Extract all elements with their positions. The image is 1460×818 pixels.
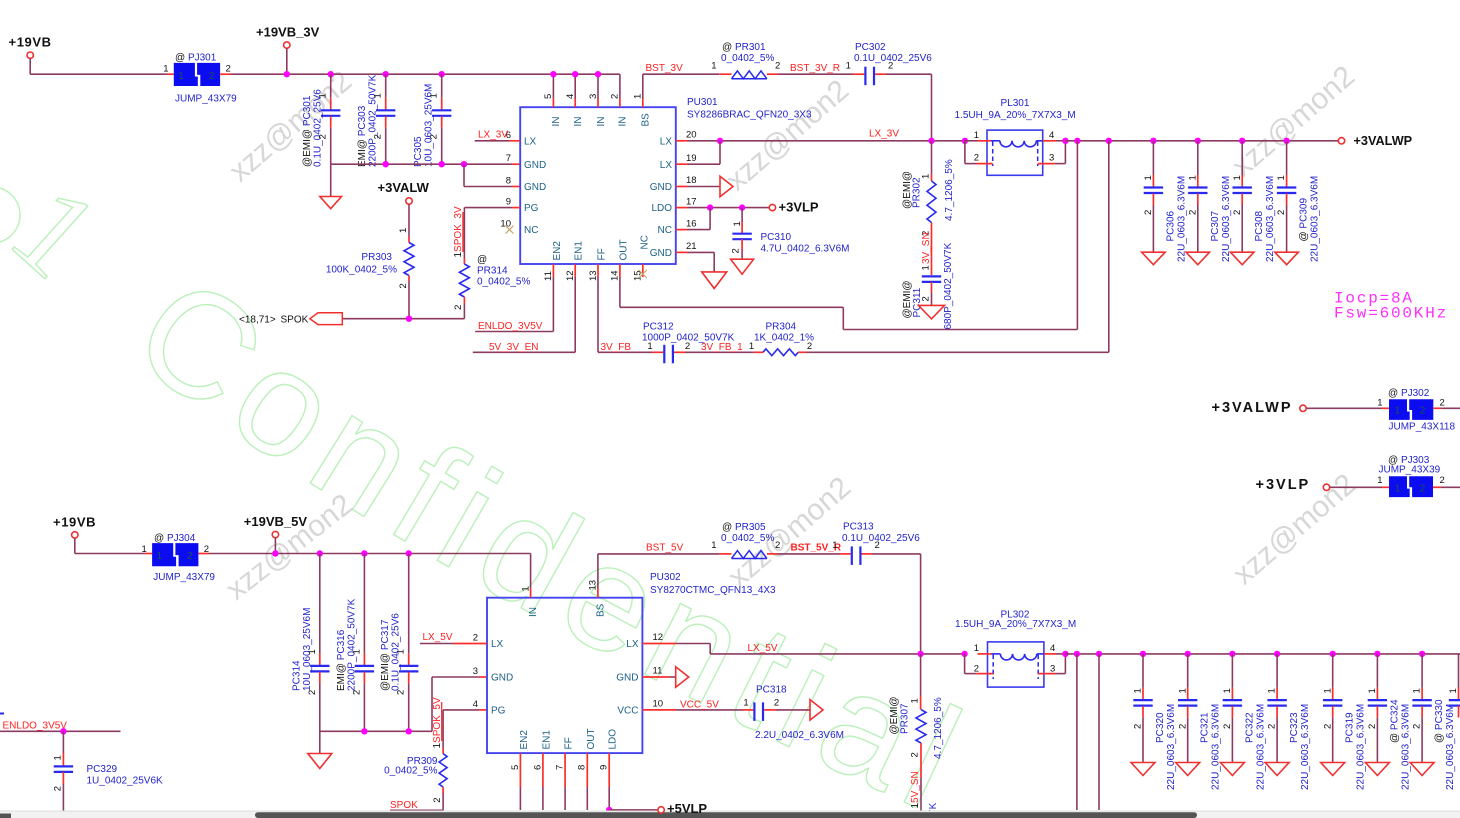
svg-text:ENLDO_3V5V: ENLDO_3V5V xyxy=(3,721,68,732)
wire LX_3V rail xyxy=(688,138,969,144)
capacitor PC328 partial label xyxy=(928,802,939,818)
svg-text:2: 2 xyxy=(774,698,779,709)
watermark xzz@mon2 6 xyxy=(1227,468,1362,592)
svg-text:2: 2 xyxy=(974,153,979,164)
svg-text:PC329: PC329 xyxy=(87,764,118,775)
gnd arrow pin18 xyxy=(688,176,734,197)
svg-text:SPOK: SPOK xyxy=(390,800,418,811)
svg-text:LX_3V: LX_3V xyxy=(869,129,899,140)
svg-text:NC: NC xyxy=(640,235,651,249)
resistor PR304 1K_0402_1% xyxy=(749,321,814,355)
svg-text:PC306: PC306 xyxy=(1165,210,1176,241)
svg-text:EMI@ PC316: EMI@ PC316 xyxy=(336,629,347,691)
capacitor partial right edge xyxy=(1448,654,1460,718)
svg-text:+3VALWP: +3VALWP xyxy=(1354,134,1413,148)
svg-text:PL301: PL301 xyxy=(1001,98,1030,109)
svg-text:1: 1 xyxy=(1222,688,1233,693)
svg-text:10: 10 xyxy=(500,219,511,230)
svg-text:PC311: PC311 xyxy=(912,287,923,317)
PU302 pin 12 LX (right) xyxy=(626,632,676,650)
PU301 pin 1 BS (top) xyxy=(633,94,652,127)
svg-text:OUT: OUT xyxy=(618,239,629,260)
wire PG pin4 to PR309 xyxy=(443,710,487,748)
svg-text:LX: LX xyxy=(491,639,504,650)
svg-text:12: 12 xyxy=(565,270,576,281)
svg-text:1: 1 xyxy=(429,93,440,98)
power terminal +3VALWP (PJ302) xyxy=(1212,400,1307,416)
svg-text:@ PR301: @ PR301 xyxy=(722,42,766,53)
svg-text:1: 1 xyxy=(396,649,407,654)
svg-text:SY8270CTMC_QFN13_4X3: SY8270CTMC_QFN13_4X3 xyxy=(650,585,776,596)
resistor PR309 0_0402_5% xyxy=(384,748,447,810)
svg-text:PC312: PC312 xyxy=(643,321,674,332)
wire PC313 down to LX_5V rail xyxy=(872,554,921,654)
svg-text:21: 21 xyxy=(686,241,697,252)
net label LX_3V (rail) xyxy=(869,129,899,140)
PU301 pin 3 IN (top) xyxy=(588,71,607,127)
svg-text:FF: FF xyxy=(564,737,575,749)
svg-text:PC323: PC323 xyxy=(1289,712,1300,743)
wire SPOK rail xyxy=(342,316,464,322)
scrollbar thumb xyxy=(0,812,1197,818)
power terminal +3VLP (pin17) xyxy=(769,200,819,215)
PU301 pin 12 EN1 (bottom) xyxy=(565,241,585,281)
capacitor PC317 0.1U_0402_25V6 xyxy=(380,550,418,731)
ground below PC314 xyxy=(308,731,332,768)
wire +3VALWP to PJ302 xyxy=(1306,407,1389,409)
svg-text:LX: LX xyxy=(524,136,537,147)
svg-text:3: 3 xyxy=(1050,663,1055,674)
power terminal +19VB (top) xyxy=(9,35,52,59)
capacitor PC322 22U_0603_6.3V6M xyxy=(1220,651,1266,790)
annotation Iocp Fsw xyxy=(1334,290,1448,323)
svg-text:1: 1 xyxy=(1322,688,1333,693)
svg-text:LX_5V: LX_5V xyxy=(423,632,453,643)
power terminal +19VB_3V xyxy=(256,25,320,75)
net label BST_5V xyxy=(598,543,719,554)
wire +19VB to PJ301 xyxy=(30,58,174,74)
svg-text:2: 2 xyxy=(1440,398,1445,409)
svg-text:2: 2 xyxy=(1412,724,1423,729)
svg-text:GND: GND xyxy=(524,182,546,193)
svg-text:LX_5V: LX_5V xyxy=(748,643,778,654)
svg-text:22U_0603_6.3V6M: 22U_0603_6.3V6M xyxy=(1300,704,1311,790)
svg-text:+19VB: +19VB xyxy=(9,35,52,50)
net label LX_3V (left) xyxy=(475,129,509,141)
svg-text:PC305: PC305 xyxy=(413,136,424,167)
svg-text:JUMP_43X79: JUMP_43X79 xyxy=(153,572,215,583)
PU301 pin 20 LX (right) xyxy=(660,130,697,148)
svg-text:EN2: EN2 xyxy=(519,730,530,750)
svg-text:4.7U_0402_6.3V6M: 4.7U_0402_6.3V6M xyxy=(761,244,850,255)
PU302 pin 5 EN2 (bottom) xyxy=(510,730,530,787)
svg-text:LDO: LDO xyxy=(651,203,672,214)
svg-text:1: 1 xyxy=(142,544,147,555)
net 3V_SN stub xyxy=(921,230,932,276)
svg-text:0.1U_0402_25V6: 0.1U_0402_25V6 xyxy=(854,53,932,64)
off-page connector SPOK xyxy=(239,313,342,326)
PU301 pin 14 OUT (bottom) xyxy=(610,239,630,281)
svg-text:JUMP_43X118: JUMP_43X118 xyxy=(1389,422,1456,433)
svg-text:1: 1 xyxy=(633,94,644,99)
svg-text:PC322: PC322 xyxy=(1244,712,1255,743)
PU302 pin 1 IN (top) xyxy=(520,554,539,618)
capacitor PC329 1U_0402_25V6K xyxy=(52,731,163,815)
capacitor PC310 4.7U_0402_6.3V6M xyxy=(731,208,850,260)
net label LX_5V (left) xyxy=(420,632,454,644)
svg-text:1: 1 xyxy=(1395,406,1401,417)
svg-text:15: 15 xyxy=(633,270,644,281)
svg-text:2: 2 xyxy=(398,283,409,288)
inductor PL302 1.5UH_9A_20%_7X7X3_M xyxy=(955,609,1076,687)
svg-text:2: 2 xyxy=(396,690,407,695)
svg-text:22U_0603_6.3V6M: 22U_0603_6.3V6M xyxy=(1176,176,1187,262)
junction ENLDO PC329 xyxy=(60,728,66,734)
svg-text:BS: BS xyxy=(596,603,607,617)
wire PJ304 to +19VB_5V rail xyxy=(198,553,530,555)
svg-text:@EMI@: @EMI@ xyxy=(889,696,900,734)
svg-text:2: 2 xyxy=(1232,210,1243,215)
svg-text:1: 1 xyxy=(52,755,63,760)
junction gnd bus pin8 branch xyxy=(461,161,520,187)
svg-text:PR302: PR302 xyxy=(912,177,923,208)
svg-text:GND: GND xyxy=(524,160,546,171)
svg-text:1: 1 xyxy=(1267,688,1278,693)
svg-text:+3VALW: +3VALW xyxy=(378,180,430,195)
PU301 pin 15 NC (bottom) xyxy=(633,235,651,281)
wire LX_5V rail (pin12) xyxy=(676,644,968,658)
wire 3V_FB_1 feedback to rail xyxy=(807,141,1109,352)
svg-text:@ PJ301: @ PJ301 xyxy=(175,53,217,64)
wire 3V_FB from pin13 xyxy=(598,277,652,352)
svg-text:4: 4 xyxy=(565,94,576,99)
svg-text:3V_SN: 3V_SN xyxy=(921,232,932,264)
svg-text:+19VB_3V: +19VB_3V xyxy=(256,25,320,40)
svg-text:2200P_0402_50V7K: 2200P_0402_50V7K xyxy=(368,74,379,167)
svg-text:4.7_1206_5%: 4.7_1206_5% xyxy=(933,697,944,759)
PU301 pin 4 IN (top) xyxy=(565,71,584,127)
net label BST_3V_R xyxy=(778,63,854,74)
PU301 pin 8 GND (left) xyxy=(506,176,547,194)
op-amp U2 PU302 SY8270CTMC_QFN13_4X3 body xyxy=(487,572,776,753)
svg-text:BST_5V: BST_5V xyxy=(646,543,684,554)
PU302 pin 2 LX (left) xyxy=(454,633,504,651)
svg-text:1: 1 xyxy=(307,649,318,654)
svg-text:100K_0402_5%: 100K_0402_5% xyxy=(326,264,397,275)
net label LX_5V (rail) xyxy=(748,643,778,654)
svg-text:LDO: LDO xyxy=(608,729,619,750)
svg-text:PC313: PC313 xyxy=(843,522,874,533)
svg-text:2: 2 xyxy=(1420,484,1426,495)
svg-text:2: 2 xyxy=(974,663,979,674)
gnd bus wire bottom xyxy=(320,728,432,734)
svg-text:14: 14 xyxy=(610,270,621,281)
svg-text:0_0402_5%: 0_0402_5% xyxy=(721,53,774,64)
net label 1SPOK_5V xyxy=(432,697,443,748)
svg-text:11: 11 xyxy=(543,271,554,281)
watermark xzz@mon2 7 xyxy=(722,471,857,595)
svg-text:IN: IN xyxy=(551,117,562,127)
capacitor PC313 0.1U_0402_25V6 xyxy=(832,522,920,565)
svg-text:PR314: PR314 xyxy=(477,266,508,277)
svg-text:LX: LX xyxy=(626,639,639,650)
scrollbar track xyxy=(0,811,1460,818)
svg-text:2: 2 xyxy=(226,64,231,75)
svg-text:22U_0603_6.3V6M: 22U_0603_6.3V6M xyxy=(1211,704,1222,790)
PU301 pin 13 FF (bottom) xyxy=(588,248,608,281)
svg-text:@ PJ304: @ PJ304 xyxy=(154,533,196,544)
svg-text:SPOK: SPOK xyxy=(281,315,309,326)
svg-text:4: 4 xyxy=(1050,643,1055,654)
capacitor PC312 1000P_0402_50V7K xyxy=(642,321,735,363)
wire LDO pin17 to +3VLP xyxy=(688,204,770,210)
svg-text:1: 1 xyxy=(1377,398,1382,409)
net label 1SPOK_3V xyxy=(453,206,464,257)
svg-text:@ PR305: @ PR305 xyxy=(722,522,766,533)
svg-text:22U_0603_6.3V6M: 22U_0603_6.3V6M xyxy=(1310,176,1321,262)
svg-text:16: 16 xyxy=(686,218,697,229)
svg-text:5: 5 xyxy=(510,765,521,770)
svg-text:LX: LX xyxy=(660,160,673,171)
junction +19VB_5V xyxy=(272,550,278,556)
svg-text:@EMI@ PC301: @EMI@ PC301 xyxy=(302,95,313,167)
svg-text:8: 8 xyxy=(577,765,588,770)
svg-text:1: 1 xyxy=(1395,484,1401,495)
svg-text:2: 2 xyxy=(209,71,215,82)
svg-text:5V_3V_EN: 5V_3V_EN xyxy=(489,342,538,353)
PU301 pin 21 GND (right) xyxy=(650,241,697,259)
svg-text:GND: GND xyxy=(616,673,638,684)
junction PL302 out xyxy=(1062,651,1068,657)
svg-text:@ PC330: @ PC330 xyxy=(1434,699,1445,743)
wire +19VB to PJ304 xyxy=(75,538,152,553)
svg-text:2: 2 xyxy=(1187,210,1198,215)
wire +3VALWP rail xyxy=(1065,138,1338,144)
svg-text:2: 2 xyxy=(1177,724,1188,729)
svg-text:1: 1 xyxy=(1377,475,1382,486)
gnd bus wire to PU301 pin7 xyxy=(331,161,521,167)
svg-text:0_0402_5%: 0_0402_5% xyxy=(384,765,437,776)
svg-text:1: 1 xyxy=(351,649,362,654)
svg-text:1: 1 xyxy=(1133,688,1144,693)
svg-text:2: 2 xyxy=(1367,724,1378,729)
svg-text:1: 1 xyxy=(910,698,921,703)
svg-text:2: 2 xyxy=(187,551,193,562)
svg-text:+3VALWP: +3VALWP xyxy=(1212,400,1293,416)
wire NC pin16 tie to LDO xyxy=(688,208,711,230)
ground below PC301 xyxy=(320,164,342,209)
svg-text:2: 2 xyxy=(318,134,329,139)
wire PJ301 to +19VB_3V rail xyxy=(220,73,620,75)
svg-text:22U_0603_6.3V6M: 22U_0603_6.3V6M xyxy=(1265,176,1276,262)
svg-text:1: 1 xyxy=(398,228,409,233)
wire PC302 down to LX_3V rail xyxy=(886,74,932,141)
svg-text:1: 1 xyxy=(520,586,531,591)
svg-text:IN: IN xyxy=(596,117,607,127)
svg-text:17: 17 xyxy=(686,196,697,207)
svg-text:4.7_1206_5%: 4.7_1206_5% xyxy=(944,159,955,221)
svg-text:PC321: PC321 xyxy=(1200,712,1211,743)
svg-text:BST_3V_R: BST_3V_R xyxy=(790,63,840,74)
net label VCC_5V xyxy=(676,699,743,710)
svg-text:2: 2 xyxy=(1322,724,1333,729)
svg-text:8: 8 xyxy=(506,176,511,187)
svg-text:SY8286BRAC_QFN20_3X3: SY8286BRAC_QFN20_3X3 xyxy=(687,110,812,121)
wire PG pin9 to PR314 xyxy=(464,208,512,258)
svg-text:0_0402_5%: 0_0402_5% xyxy=(477,277,530,288)
svg-text:1K_0402_1%: 1K_0402_1% xyxy=(754,333,814,344)
wire EN1 pin6 down xyxy=(542,787,544,810)
wire FF pin7 down xyxy=(564,787,566,810)
svg-text:1: 1 xyxy=(178,71,184,82)
svg-text:1: 1 xyxy=(846,61,851,72)
svg-text:1: 1 xyxy=(974,643,979,654)
wire +5V output rail xyxy=(1065,651,1460,657)
svg-text:@ PC324: @ PC324 xyxy=(1389,699,1400,743)
svg-text:2: 2 xyxy=(373,134,384,139)
PU302 pin 4 PG (left) xyxy=(473,699,506,717)
svg-text:PR307: PR307 xyxy=(900,703,911,734)
svg-text:VCC_5V: VCC_5V xyxy=(680,699,719,710)
svg-text:3: 3 xyxy=(588,94,599,99)
capacitor PC314 10U_0603_25V6M xyxy=(291,550,329,731)
svg-text:ENLDO_3V5V: ENLDO_3V5V xyxy=(478,321,543,332)
svg-text:PG: PG xyxy=(524,203,539,214)
net label BST_3V xyxy=(646,63,684,74)
svg-text:PG: PG xyxy=(491,706,506,717)
svg-text:@: @ xyxy=(477,255,487,266)
capacitor PC319 22U_0603_6.3V6M xyxy=(1321,651,1367,790)
resistor PR307 4.7_1206_5% xyxy=(889,654,944,759)
svg-text:+19VB_5V: +19VB_5V xyxy=(244,514,308,529)
PU302 pin 8 OUT (bottom) xyxy=(577,728,597,787)
wire ENLDO_3V5V from pin11 xyxy=(475,277,553,332)
ground below PC310 xyxy=(731,259,754,274)
PU302 pin 9 LDO (bottom) xyxy=(599,729,619,787)
watermark xzz@mon2 8 xyxy=(220,488,359,607)
svg-text:GND: GND xyxy=(650,182,672,193)
svg-text:PU301: PU301 xyxy=(687,97,718,108)
svg-text:1: 1 xyxy=(1177,688,1188,693)
cut-off component left edge xyxy=(0,713,4,715)
svg-text:JUMP_43X39: JUMP_43X39 xyxy=(1379,465,1441,476)
svg-text:IN: IN xyxy=(528,607,539,617)
PU302 pin 7 FF (bottom) xyxy=(555,737,575,787)
svg-text:2: 2 xyxy=(775,61,780,72)
svg-text:6: 6 xyxy=(532,765,543,770)
svg-text:18: 18 xyxy=(686,175,697,186)
svg-text:+3VLP: +3VLP xyxy=(1256,477,1311,493)
svg-text:2: 2 xyxy=(52,786,63,791)
svg-text:2: 2 xyxy=(1133,724,1144,729)
svg-text:2: 2 xyxy=(909,752,920,757)
wire OUT pin14 feedback xyxy=(620,141,1078,330)
capacitor PC306 22U_0603_6.3V6M xyxy=(1142,138,1188,265)
svg-text:<18,71>: <18,71> xyxy=(239,315,276,326)
svg-text:BST_3V: BST_3V xyxy=(646,63,684,74)
capacitor PC307 22U_0603_6.3V6M xyxy=(1186,138,1232,265)
svg-text:2: 2 xyxy=(610,94,621,99)
svg-text:@ PJ302: @ PJ302 xyxy=(1388,388,1430,399)
svg-text:22U_0603_6.3V6M: 22U_0603_6.3V6M xyxy=(1400,704,1411,790)
svg-text:2: 2 xyxy=(1276,210,1287,215)
svg-text:NC: NC xyxy=(524,225,538,236)
capacitor PC303 2200P_0402_50V7K xyxy=(357,71,395,167)
svg-text:1: 1 xyxy=(163,64,168,75)
svg-text:20: 20 xyxy=(686,130,697,141)
capacitor PC301 0.1U_0402_25V6 xyxy=(302,71,340,167)
svg-text:PC307: PC307 xyxy=(1210,210,1221,241)
wire PJ302 out xyxy=(1433,407,1460,409)
power terminal +5VLP xyxy=(658,801,708,816)
PU302 pin 13 BS (top) xyxy=(588,554,607,617)
wire gnd bus to pin3 xyxy=(432,677,487,731)
svg-text:Fsw=600KHz: Fsw=600KHz xyxy=(1334,305,1448,323)
PU301 pin 11 EN2 (bottom) xyxy=(543,241,563,281)
svg-text:15V_SN: 15V_SN xyxy=(910,771,921,808)
inductor PL301 1.5UH_9A_20%_7X7X3_M xyxy=(955,98,1076,175)
net label BST_5V_R xyxy=(778,543,842,554)
ground below PC311 xyxy=(919,305,945,319)
svg-text:PC310: PC310 xyxy=(761,232,792,243)
svg-text:2: 2 xyxy=(775,540,780,551)
svg-text:19: 19 xyxy=(686,153,697,164)
svg-text:IN: IN xyxy=(618,117,629,127)
svg-text:1: 1 xyxy=(1143,175,1154,180)
svg-text:@EMI@ PC317: @EMI@ PC317 xyxy=(380,619,391,691)
net label SPOK (bottom) xyxy=(390,800,443,811)
svg-text:2200P_0402_50V7K: 2200P_0402_50V7K xyxy=(346,598,357,691)
svg-text:PU302: PU302 xyxy=(650,572,681,583)
svg-text:2.2U_0402_6.3V6M: 2.2U_0402_6.3V6M xyxy=(755,730,844,741)
svg-text:22U_0603_6.3V6M: 22U_0603_6.3V6M xyxy=(1445,704,1456,790)
resistor PR303 100K_0402_5% xyxy=(326,204,414,319)
svg-text:4: 4 xyxy=(1049,130,1054,141)
resistor PR301 0_0402_5% xyxy=(711,42,780,79)
svg-text:1: 1 xyxy=(318,93,329,98)
svg-text:VCC: VCC xyxy=(617,706,638,717)
gnd arrow pin11 xyxy=(670,667,689,688)
junction +19VB_3V xyxy=(284,71,290,77)
wire BS pin1 to BST_3V xyxy=(643,74,719,98)
svg-text:3: 3 xyxy=(1049,153,1054,164)
svg-text:1: 1 xyxy=(1367,688,1378,693)
wire PJ303 out xyxy=(1433,486,1460,488)
PU301 pin 16 NC (right) xyxy=(658,218,697,236)
svg-text:FF: FF xyxy=(597,248,608,260)
wire 5V_3V_EN from pin12 xyxy=(473,277,575,352)
wire EN2 pin5 down xyxy=(519,787,521,810)
wire +3VLP to PJ303 xyxy=(1330,486,1389,488)
svg-text:2: 2 xyxy=(351,690,362,695)
svg-text:PR304: PR304 xyxy=(766,321,797,332)
wire OUT pin8 down xyxy=(586,787,588,810)
capacitor PC323 22U_0603_6.3V6M xyxy=(1265,651,1311,790)
svg-text:22U_0603_6.3V6M: 22U_0603_6.3V6M xyxy=(1356,704,1367,790)
svg-text:+5VLP: +5VLP xyxy=(667,801,707,816)
capacitor PC318 2.2U_0402_6.3V6M xyxy=(743,684,844,741)
resistor PR302 4.7_1206_5% xyxy=(902,141,955,236)
svg-text:1: 1 xyxy=(921,265,932,270)
ground pin21 xyxy=(688,252,727,288)
PU301 pin 7 GND (left) xyxy=(506,153,547,171)
watermark xzz@mon2 1 xyxy=(223,65,358,189)
svg-text:2: 2 xyxy=(473,633,478,644)
svg-text:2: 2 xyxy=(453,305,464,310)
svg-text:+19VB: +19VB xyxy=(53,515,96,530)
svg-text:PC318: PC318 xyxy=(756,684,787,695)
svg-text:EN1: EN1 xyxy=(541,730,552,750)
